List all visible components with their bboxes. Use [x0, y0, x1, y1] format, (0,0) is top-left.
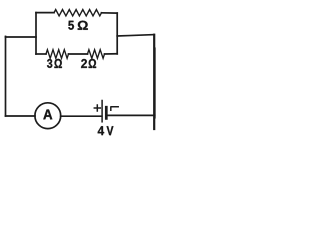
- value label 3 ohm: [47, 59, 62, 68]
- wire right rail lower thickening: [154, 48, 156, 118]
- ammeter U1 circle: [35, 103, 61, 129]
- wire bottom left from rail to ammeter: [6, 115, 36, 117]
- wire top branch right lead: [102, 12, 118, 14]
- wire bottom right from battery to right rail: [108, 114, 155, 116]
- value label 4 V: [98, 126, 114, 135]
- battery V1 positive plate (long): [101, 101, 103, 122]
- ammeter label A: [43, 110, 52, 120]
- wire between R2 and R3: [69, 53, 88, 55]
- wire node B to right rail: [117, 35, 154, 36]
- resistor R2 3 ohm zigzag: [46, 50, 69, 59]
- wire top branch left lead: [36, 12, 54, 14]
- value label 5 ohm: [68, 21, 88, 30]
- battery V1 negative plate (short thick): [105, 107, 108, 118]
- wire right vertical rail: [153, 35, 155, 129]
- wire ammeter to battery: [61, 115, 102, 117]
- polarity plus sign: [94, 105, 100, 111]
- wire left vertical rail: [5, 36, 7, 116]
- wire bottom branch right lead: [105, 53, 118, 55]
- resistor R3 2 ohm zigzag: [88, 50, 105, 59]
- wire right junction vertical (joins both branches): [116, 13, 118, 54]
- resistor R1 5 ohm zigzag: [54, 10, 102, 16]
- wire left horizontal from left rail to parallel-network left node: [6, 36, 37, 38]
- value label 2 ohm: [81, 59, 96, 68]
- polarity minus sign: [111, 107, 118, 110]
- node A left junction vertical wire: [35, 13, 37, 54]
- wire bottom branch left lead: [36, 53, 46, 55]
